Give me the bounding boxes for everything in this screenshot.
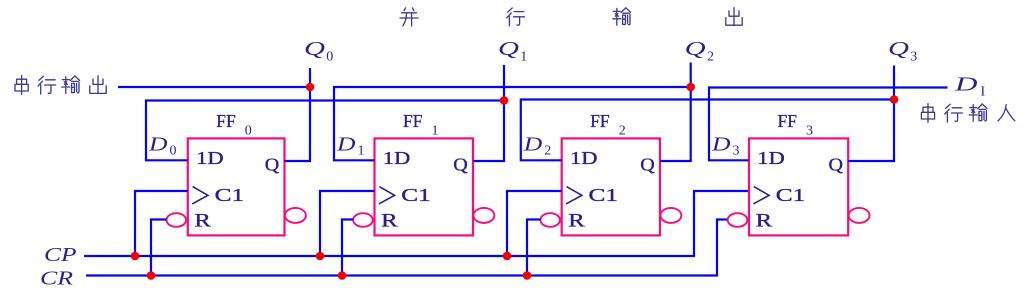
node Q3 / D2 junction [890, 95, 899, 104]
label title char 行 [507, 8, 525, 26]
svg-text:2: 2 [619, 124, 626, 139]
label serial-output char 串 [15, 76, 28, 95]
clock edge-trigger chevron of FF1 [379, 187, 395, 204]
label title char 并 [400, 8, 418, 26]
svg-text:FF: FF [778, 111, 798, 131]
label serial-output char 输 [62, 76, 80, 93]
flip-flop U3 box FF3 [749, 138, 848, 235]
label serial-input char 入 [998, 105, 1015, 121]
wire D2 input from node at x=894 [521, 100, 894, 161]
wire CR to R bubble of FF1 [342, 220, 353, 276]
inverter bubble on R input of FF0 [167, 213, 187, 227]
node Q0 / serial output junction [306, 83, 315, 92]
node Q1 / D0 junction [500, 96, 509, 105]
label serial-input char 输 [969, 104, 987, 121]
wire D3 input from node at x=947.5 [709, 88, 948, 161]
junction CR / FF0 reset [147, 271, 156, 280]
wire CP to clock pin of FF1 [320, 191, 375, 256]
svg-text:0: 0 [170, 144, 177, 159]
wire CR to R bubble of FF2 [527, 220, 541, 276]
svg-text:C1: C1 [589, 185, 619, 205]
svg-text:1: 1 [358, 144, 365, 159]
svg-text:D: D [523, 134, 543, 156]
svg-text:R: R [381, 211, 398, 232]
flip-flop U0 box FF0 [188, 138, 285, 235]
svg-text:2: 2 [707, 50, 714, 65]
flip-flop U1 box FF1 [375, 138, 474, 235]
svg-text:R: R [756, 211, 773, 232]
svg-text:Q: Q [888, 38, 910, 60]
svg-text:FF: FF [403, 111, 423, 131]
svg-text:CP: CP [44, 245, 77, 266]
svg-text:0: 0 [326, 50, 333, 65]
wire CR to R bubble of FF0 [151, 220, 167, 276]
inverter bubble on Q-bar output of FF3 [849, 208, 870, 223]
svg-text:D: D [711, 134, 731, 156]
wire Q output of FF3 up to Q3 terminal [848, 66, 894, 162]
wire serial output to Q0 node [118, 86, 310, 88]
wire CP to clock pin of FF0 [135, 191, 188, 256]
svg-text:Q: Q [829, 155, 844, 175]
clock edge-trigger chevron of FF0 [192, 187, 208, 204]
wire CP to clock pin of FF2 [507, 191, 562, 256]
inverter bubble on Q-bar output of FF1 [473, 208, 494, 223]
junction CP / FF1 clock [316, 252, 325, 261]
svg-text:C1: C1 [215, 185, 245, 205]
svg-text:FF: FF [216, 111, 236, 131]
svg-text:D: D [336, 134, 356, 156]
wire CP clock rail [84, 191, 749, 256]
clock edge-trigger chevron of FF3 [753, 187, 769, 204]
label serial-output char 行 [38, 76, 56, 94]
label serial-output char 出 [90, 76, 106, 94]
svg-text:1D: 1D [570, 148, 598, 168]
svg-text:0: 0 [245, 124, 252, 139]
svg-text:1D: 1D [757, 148, 785, 168]
wire Q output of FF2 up to Q2 terminal [660, 63, 691, 162]
svg-text:3: 3 [733, 144, 740, 159]
svg-text:I: I [981, 85, 986, 100]
svg-text:D: D [953, 74, 978, 96]
svg-text:1D: 1D [196, 148, 224, 168]
svg-text:Q: Q [640, 155, 655, 175]
svg-text:1D: 1D [383, 148, 411, 168]
svg-text:Q: Q [498, 38, 520, 60]
junction CR / FF2 reset [523, 271, 532, 280]
node Q2 / D1 junction [686, 83, 695, 92]
flip-flop U2 box FF2 [562, 138, 660, 235]
svg-text:Q: Q [265, 155, 280, 175]
svg-text:R: R [568, 211, 585, 232]
svg-text:2: 2 [544, 144, 551, 159]
inverter bubble on R input of FF1 [353, 213, 373, 227]
junction CP / FF2 clock [503, 252, 512, 261]
svg-text:Q: Q [304, 38, 326, 60]
label serial-input char 串 [921, 104, 934, 123]
svg-text:FF: FF [590, 111, 610, 131]
label serial-input char 行 [945, 104, 963, 122]
svg-text:3: 3 [910, 50, 917, 65]
svg-text:C1: C1 [776, 185, 806, 205]
svg-text:Q: Q [685, 38, 707, 60]
svg-text:D: D [148, 134, 168, 156]
svg-text:3: 3 [806, 124, 813, 139]
wire D1 input from node at x=690.7 [334, 87, 691, 160]
inverter bubble on R input of FF3 [728, 213, 748, 227]
svg-text:C1: C1 [401, 185, 431, 205]
svg-text:1: 1 [520, 50, 527, 65]
svg-text:Q: Q [453, 155, 468, 175]
inverter bubble on Q-bar output of FF2 [660, 208, 681, 223]
svg-text:CR: CR [40, 268, 73, 289]
label title char 出 [726, 8, 742, 26]
inverter bubble on R input of FF2 [540, 213, 560, 227]
svg-text:1: 1 [432, 124, 439, 139]
wire Q output of FF0 up to Q0 terminal [285, 68, 311, 161]
wire D0 input from node at x=504 [146, 101, 504, 161]
wire Q output of FF1 up to Q1 terminal [473, 65, 504, 161]
junction CP / FF0 clock [131, 252, 140, 261]
svg-text:R: R [194, 211, 211, 232]
wire CR reset rail [86, 220, 728, 276]
inverter bubble on Q-bar output of FF0 [285, 208, 306, 223]
clock edge-trigger chevron of FF2 [566, 187, 582, 204]
junction CR / FF1 reset [338, 271, 347, 280]
label title char 输 [613, 8, 631, 25]
